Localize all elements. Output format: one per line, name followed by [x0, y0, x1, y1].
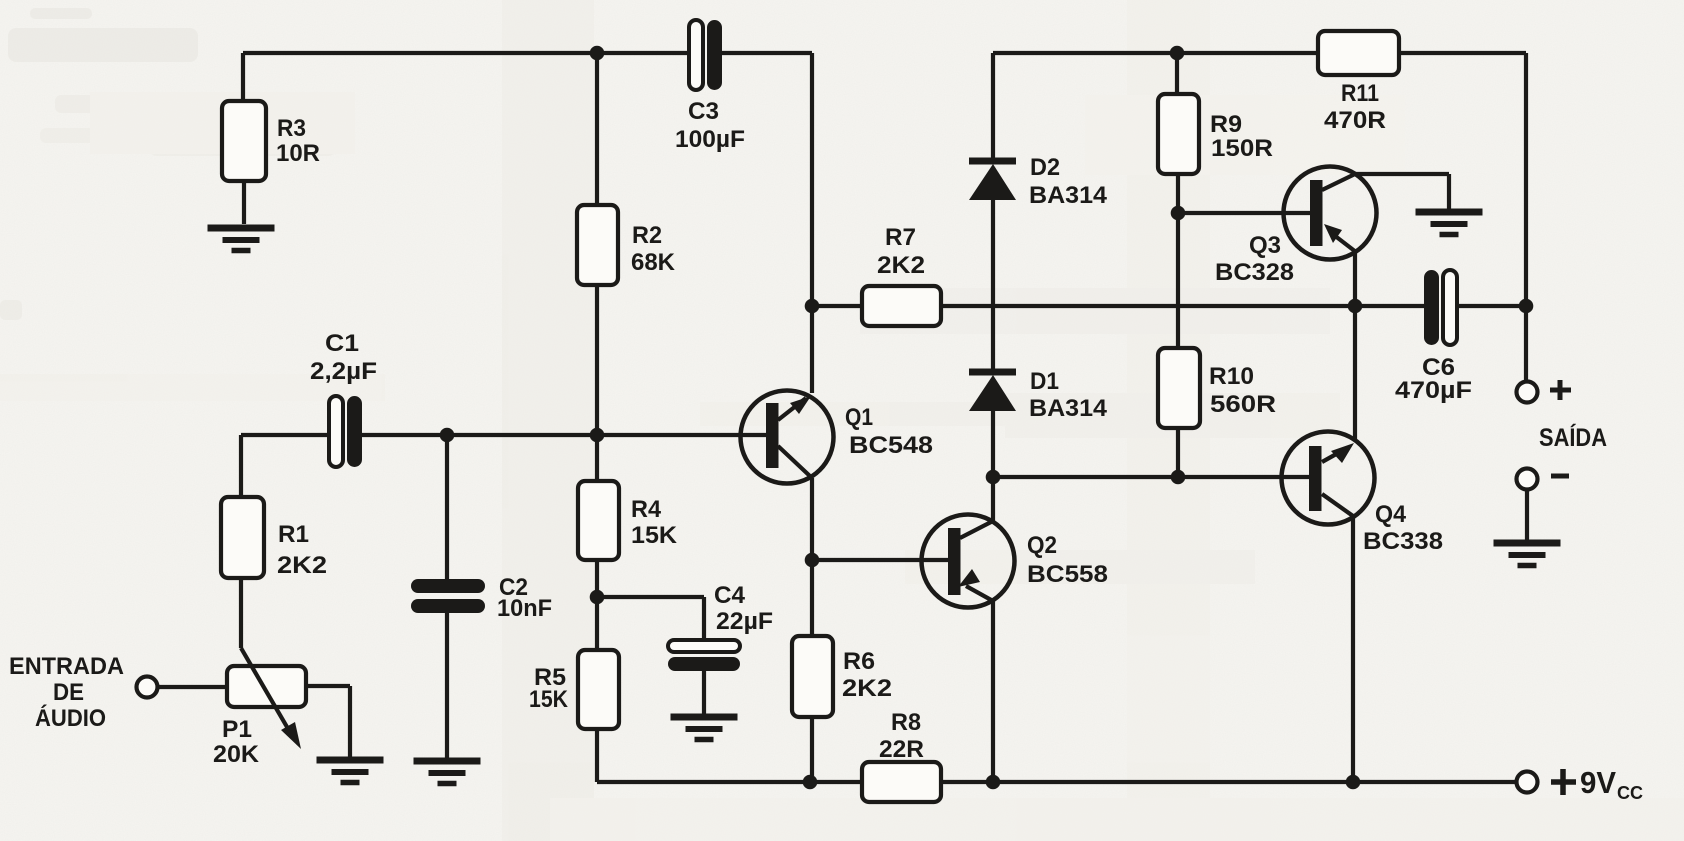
- node Q4 emitter junction: [1346, 775, 1361, 790]
- svg-text:10R: 10R: [276, 140, 320, 167]
- wire R1 top lead: [239, 435, 243, 497]
- svg-text:CC: CC: [1617, 783, 1643, 803]
- svg-text:R8: R8: [891, 709, 921, 736]
- wire Q2 emitter lead: [991, 477, 995, 521]
- svg-text:10nF: 10nF: [497, 595, 552, 622]
- svg-text:C4: C4: [714, 582, 746, 609]
- wire P1 right to ground: [306, 686, 350, 757]
- wire R7 to C6: [941, 304, 1424, 308]
- wire R1 to P1 wiper: [239, 578, 243, 648]
- wire Q2 collector: [991, 601, 995, 782]
- svg-text:Q4: Q4: [1375, 501, 1407, 528]
- svg-text:100µF: 100µF: [675, 126, 745, 153]
- node Q3 base junction: [1171, 206, 1186, 221]
- svg-text:BA314: BA314: [1029, 182, 1108, 209]
- wire R9 branch: [1177, 53, 1178, 348]
- svg-text:9V: 9V: [1580, 765, 1616, 800]
- wire C2 branch: [445, 435, 449, 758]
- svg-text:68K: 68K: [631, 249, 676, 276]
- wire bottom rail: [597, 780, 1517, 784]
- svg-text:SAÍDA: SAÍDA: [1539, 423, 1607, 452]
- svg-text:2K2: 2K2: [877, 252, 925, 279]
- wire top-left rail: [243, 51, 812, 55]
- svg-text:2K2: 2K2: [277, 552, 327, 579]
- diode D2 BA314: [969, 161, 1016, 200]
- resistor R8: [862, 762, 941, 802]
- wire Q3 emitter to Q4: [1353, 252, 1357, 439]
- svg-text:ENTRADA: ENTRADA: [9, 653, 124, 680]
- svg-text:R3: R3: [277, 115, 306, 142]
- svg-text:BA314: BA314: [1029, 395, 1108, 422]
- ground output minus: [1494, 543, 1561, 566]
- svg-text:Q1: Q1: [845, 404, 873, 431]
- wire C1 input line: [241, 433, 766, 437]
- wire R7 left: [812, 304, 862, 308]
- ground below R3: [208, 228, 275, 251]
- svg-text:R11: R11: [1341, 80, 1379, 107]
- wire Q3 base: [1178, 211, 1310, 215]
- capacitor C6: [1424, 270, 1457, 345]
- diode D1 BA314: [969, 372, 1016, 411]
- transistor Q4 BC338: [1282, 432, 1375, 525]
- resistor R6: [792, 636, 833, 717]
- svg-text:2K2: 2K2: [842, 675, 892, 702]
- wire Q2 base: [812, 558, 948, 562]
- svg-text:15K: 15K: [631, 522, 678, 549]
- wire R10 bottom lead: [1176, 428, 1180, 477]
- svg-text:R1: R1: [278, 521, 309, 548]
- svg-text:150R: 150R: [1211, 135, 1273, 162]
- node R4-R5 junction: [590, 590, 605, 605]
- node output junction: [1519, 299, 1534, 314]
- node Q2 collector junction: [986, 775, 1001, 790]
- svg-text:2,2µF: 2,2µF: [310, 358, 377, 385]
- label minus sign: [1551, 474, 1569, 479]
- capacitor C4: [668, 640, 740, 671]
- svg-text:560R: 560R: [1210, 391, 1276, 418]
- svg-text:R7: R7: [885, 224, 916, 251]
- svg-text:470R: 470R: [1324, 107, 1386, 134]
- capacitor C1: [329, 396, 362, 467]
- wire input to P1: [158, 685, 227, 689]
- terminal +9Vcc: [1517, 772, 1538, 793]
- wire Q4 emitter down: [1351, 516, 1355, 782]
- svg-text:C3: C3: [688, 98, 719, 125]
- svg-text:P1: P1: [222, 716, 252, 743]
- svg-text:BC558: BC558: [1027, 561, 1108, 588]
- wire top-right rail: [993, 53, 1526, 382]
- svg-text:Q2: Q2: [1027, 532, 1057, 559]
- node R6 bottom junction: [803, 775, 818, 790]
- wire Q3 collector to ground: [1355, 174, 1449, 209]
- wire R4 branch: [595, 435, 599, 650]
- resistor R3: [222, 101, 266, 181]
- wire Q1 collector: [810, 53, 814, 393]
- svg-text:ÁUDIO: ÁUDIO: [35, 704, 106, 732]
- potentiometer P1 body: [227, 666, 306, 707]
- svg-text:D1: D1: [1030, 368, 1059, 395]
- resistor R2: [577, 205, 618, 285]
- svg-text:Q3: Q3: [1249, 232, 1281, 259]
- ground Q3 collector: [1416, 212, 1483, 235]
- wire R2 branch: [595, 53, 599, 435]
- node R2 top junction: [590, 46, 605, 61]
- node C6 left junction: [1348, 299, 1363, 314]
- svg-text:15K: 15K: [529, 686, 569, 713]
- resistor R4: [578, 481, 619, 560]
- label +9Vcc: [1551, 765, 1643, 803]
- wire C6 right: [1457, 304, 1526, 308]
- ground below C4: [671, 717, 738, 740]
- wire junction to C4: [597, 597, 704, 641]
- svg-text:22µF: 22µF: [716, 608, 773, 635]
- label plus sign: [1550, 380, 1571, 400]
- node R9 top junction: [1170, 46, 1185, 61]
- transistor Q1 BC548: [741, 391, 834, 484]
- resistor R10: [1158, 348, 1200, 428]
- potentiometer P1 wiper arrow: [241, 648, 301, 749]
- node R7 left junction: [805, 299, 820, 314]
- wire Q4 base rail: [993, 475, 1309, 479]
- terminal output minus: [1517, 469, 1538, 490]
- ground below P1: [317, 760, 384, 783]
- ground below C2: [414, 761, 481, 784]
- resistor R9: [1158, 94, 1199, 174]
- svg-text:R10: R10: [1209, 363, 1254, 390]
- svg-text:BC548: BC548: [849, 432, 933, 459]
- transistor Q2 BC558: [922, 515, 1015, 608]
- svg-text:BC338: BC338: [1363, 528, 1443, 555]
- wire C4 to ground: [702, 671, 706, 714]
- svg-text:470µF: 470µF: [1395, 377, 1472, 404]
- wire R5 to bottom rail: [595, 729, 599, 782]
- svg-text:R9: R9: [1210, 111, 1242, 138]
- capacitor C3: [689, 20, 722, 90]
- resistor R5: [578, 650, 619, 729]
- resistor R1: [221, 497, 264, 578]
- wire D2 D1 chain: [991, 53, 995, 477]
- wire R6 bottom lead: [810, 717, 814, 782]
- wire R3 ground lead: [242, 181, 246, 224]
- svg-text:D2: D2: [1030, 154, 1060, 181]
- svg-text:R4: R4: [631, 496, 662, 523]
- svg-text:20K: 20K: [213, 741, 260, 768]
- transistor Q3 BC328: [1284, 167, 1377, 260]
- svg-text:R2: R2: [632, 222, 662, 249]
- terminal output plus: [1517, 382, 1538, 403]
- svg-text:22R: 22R: [879, 736, 924, 763]
- resistor R11: [1318, 31, 1399, 75]
- node R4 junction: [590, 428, 605, 443]
- capacitor C2: [411, 579, 485, 613]
- svg-text:R6: R6: [843, 648, 875, 675]
- node C2 junction: [440, 428, 455, 443]
- node D1 bottom junction: [986, 470, 1001, 485]
- resistor R7: [862, 286, 941, 326]
- terminal input: [137, 677, 158, 698]
- svg-text:BC328: BC328: [1215, 259, 1294, 286]
- wire R3 top lead: [241, 53, 245, 101]
- node R10 bottom junction: [1171, 470, 1186, 485]
- wire Q1 emitter to R6: [810, 478, 814, 636]
- svg-text:C1: C1: [325, 330, 359, 357]
- node Q2 base junction: [805, 553, 820, 568]
- wire minus terminal to ground: [1525, 490, 1529, 540]
- svg-text:DE: DE: [53, 679, 84, 706]
